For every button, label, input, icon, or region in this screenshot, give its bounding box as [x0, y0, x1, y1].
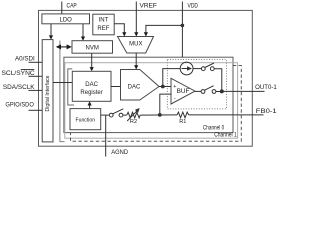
- svg-text:-: -: [174, 96, 176, 102]
- channel 1 inner faint box: [65, 63, 238, 139]
- current source arrow: [182, 68, 188, 70]
- svg-text:REF: REF: [97, 26, 109, 32]
- wire current source to upper switch: [193, 68, 201, 70]
- svg-text:OUT0-1: OUT0-1: [255, 85, 277, 91]
- dac register back box fragment: [68, 69, 74, 105]
- arrowhead MUX into DAC: [134, 65, 138, 69]
- DAC output node dot: [161, 85, 165, 89]
- resistor R2 zigzag: [127, 112, 140, 118]
- wire DAC Register to DAC: [111, 86, 121, 88]
- lower switch contact left: [201, 90, 205, 94]
- wire VDD branch to MUX: [146, 25, 183, 33]
- svg-text:FB0-1: FB0-1: [256, 109, 278, 115]
- arrowhead VREF into MUX: [134, 32, 138, 36]
- wire NVM down to DAC Register: [91, 53, 93, 68]
- svg-text:R1: R1: [179, 119, 186, 125]
- pin OUT0-7 wire: [222, 90, 265, 92]
- svg-text:A0/SDI: A0/SDI: [15, 57, 35, 63]
- Digital Interface box: [42, 40, 53, 142]
- svg-text:AGND: AGND: [111, 150, 128, 156]
- chip outer boundary: [39, 10, 253, 146]
- arrowhead Function into DAC Register: [88, 101, 92, 105]
- svg-text:MUX: MUX: [129, 42, 142, 48]
- svg-text:VDD: VDD: [188, 3, 199, 9]
- lower switch lever: [205, 86, 214, 91]
- svg-text:Channel 1: Channel 1: [214, 133, 237, 139]
- wire switch to R2: [123, 114, 127, 116]
- pin SCL/SYNC wire: [29, 75, 43, 77]
- VDD junction dot: [181, 24, 185, 28]
- switch before R2 lever: [113, 109, 124, 114]
- channel 1 dashed box visible edges: [71, 66, 242, 142]
- wire R2 to feedback node: [140, 114, 177, 116]
- svg-text:GPIO/SDO: GPIO/SDO: [5, 103, 34, 109]
- arrowhead VDD branch into MUX: [144, 32, 148, 36]
- upper switch lever: [205, 63, 214, 68]
- BUF op-amp triangle: [171, 78, 195, 104]
- pin SDA/SCLK wire: [29, 89, 43, 91]
- arrowhead LDO into NVM: [81, 37, 85, 41]
- svg-text:VREF: VREF: [140, 3, 158, 9]
- wire LDO down to NVM: [82, 24, 84, 38]
- switch before R2 contact right: [119, 113, 123, 117]
- pin GPIO/SDO wire: [29, 109, 43, 111]
- pin AGND wire: [105, 115, 107, 156]
- arrowhead NVM into DAC Register: [90, 67, 94, 71]
- NVM box: [72, 41, 113, 54]
- MUX trapezoid: [118, 37, 154, 54]
- svg-text:Register: Register: [80, 90, 102, 96]
- pin VREF wire: [135, 2, 137, 34]
- arrowhead LDO into Digital Interface: [49, 35, 53, 39]
- lower switch contact right: [212, 90, 216, 94]
- INT REF box: [93, 14, 114, 35]
- Function box: [70, 109, 101, 130]
- pin VDD wire: [181, 2, 183, 58]
- svg-text:CAP: CAP: [67, 3, 77, 9]
- overline SYNC: [21, 69, 35, 71]
- upper switch contact left: [201, 67, 205, 71]
- pin CAP wire: [61, 2, 63, 14]
- switch before R2 contact left: [109, 113, 113, 117]
- DAC converter symbol: [121, 70, 160, 101]
- wire LDO down to Digital Interface: [50, 24, 52, 37]
- DAC Register box: [72, 71, 111, 101]
- wire DAC output to node: [159, 86, 171, 88]
- wire Digital Interface to DAC Register: [53, 82, 72, 84]
- wire lower switch to output node: [216, 91, 220, 93]
- current source circle: [180, 62, 193, 75]
- svg-text:DAC: DAC: [85, 82, 98, 88]
- wire MUX down to DAC: [135, 53, 137, 66]
- wire Function up to DAC Register: [89, 104, 91, 108]
- svg-text:BUF: BUF: [177, 88, 190, 95]
- wire INT REF to MUX: [114, 24, 124, 34]
- svg-text:SCL/SYNC: SCL/SYNC: [2, 71, 36, 77]
- channel back line: [60, 41, 65, 142]
- pin A0/SDI wire: [29, 61, 43, 63]
- upper switch contact right: [210, 67, 214, 71]
- dotted buffer sub-box: [167, 60, 226, 109]
- wire BUF output to lower switch: [195, 90, 201, 92]
- svg-text:+: +: [173, 84, 176, 90]
- pin FB0-7 wire: [189, 114, 264, 116]
- svg-text:R2: R2: [130, 119, 137, 125]
- svg-text:Digital Interface: Digital Interface: [45, 75, 51, 112]
- svg-text:INT: INT: [99, 18, 109, 24]
- svg-text:Function: Function: [76, 117, 96, 123]
- LDO box: [42, 14, 90, 24]
- BUF feedback wire from R1 node: [160, 94, 171, 115]
- svg-text:DAC: DAC: [128, 85, 141, 91]
- wire node up to current source: [163, 69, 180, 87]
- resistor R2 variable arrow: [127, 110, 137, 121]
- arrowhead INT REF into MUX: [122, 32, 126, 36]
- svg-text:SDA/SCLK: SDA/SCLK: [3, 85, 35, 91]
- wire upper switch to output node: [214, 69, 222, 92]
- resistor R1 zigzag: [177, 112, 189, 118]
- wire Function to switch: [101, 114, 110, 116]
- output node dot: [220, 89, 224, 93]
- channel 0 front box: [64, 57, 233, 132]
- svg-text:NVM: NVM: [86, 46, 99, 52]
- feedback node dot: [158, 113, 162, 117]
- double arrow Digital Interface / NVM: [59, 46, 69, 48]
- svg-text:LDO: LDO: [60, 18, 73, 24]
- svg-text:Channel 0: Channel 0: [203, 126, 225, 132]
